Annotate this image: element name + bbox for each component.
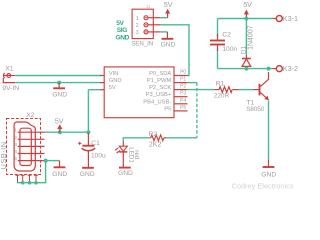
svg-text:2: 2 xyxy=(14,135,17,141)
svg-text:S8050: S8050 xyxy=(246,106,265,113)
svg-text:R2: R2 xyxy=(149,131,158,138)
wire P2 to R1 xyxy=(188,89,215,91)
svg-text:GND: GND xyxy=(80,171,95,178)
resistor R2 xyxy=(149,135,166,141)
J1 pad 3 xyxy=(144,30,148,34)
wire T1 emitter to ground xyxy=(268,101,270,160)
USB tongue xyxy=(20,128,31,165)
wire R2 to LED xyxy=(123,138,149,142)
wire GND net X1 to module xyxy=(15,82,100,84)
svg-text:P5: P5 xyxy=(164,106,171,112)
J1 pin1 lead xyxy=(148,17,161,19)
svg-text:2K2: 2K2 xyxy=(149,142,162,149)
module left pin names xyxy=(109,71,122,91)
svg-text:P3: P3 xyxy=(180,91,186,97)
pin labels P0-P5 xyxy=(180,69,186,111)
svg-text:5V: 5V xyxy=(109,85,116,91)
svg-text:220R: 220R xyxy=(214,93,230,100)
pad K3-2 xyxy=(273,66,283,72)
svg-text:4: 4 xyxy=(14,149,17,155)
wire R1 to T1 base xyxy=(239,89,254,91)
USB shield pins xyxy=(16,175,39,183)
svg-text:P2: P2 xyxy=(180,84,186,90)
USB pin rows xyxy=(18,132,46,160)
node C1 junction xyxy=(86,130,90,134)
svg-text:5V: 5V xyxy=(164,0,173,9)
ground under X1 wire xyxy=(53,83,65,89)
svg-text:P1: P1 xyxy=(180,77,186,83)
pin VIN stub xyxy=(100,75,104,77)
svg-text:1: 1 xyxy=(14,128,17,134)
pin P0 stub xyxy=(174,75,188,77)
svg-text:5V: 5V xyxy=(116,20,124,27)
node 5V arrow junction xyxy=(58,130,62,134)
wire J1 pin1 to 5V arrow xyxy=(161,17,168,19)
node junction X1 GND xyxy=(57,81,61,85)
svg-text:X1: X1 xyxy=(5,66,14,73)
capacitor C1 xyxy=(78,133,95,167)
svg-text:C1: C1 xyxy=(91,140,100,147)
svg-text:P0: P0 xyxy=(180,69,186,75)
svg-text:K3-2: K3-2 xyxy=(283,64,298,73)
USB shell X2 xyxy=(14,122,35,171)
J1 pin3 lead xyxy=(148,31,161,33)
USB pin numbers xyxy=(14,128,17,162)
svg-text:1N4007: 1N4007 xyxy=(248,25,255,50)
resistor R1 xyxy=(215,87,239,93)
svg-text:GND: GND xyxy=(109,78,122,84)
svg-text:PB4_USB-: PB4_USB- xyxy=(143,99,171,105)
svg-text:P2_SCK: P2_SCK xyxy=(149,85,171,91)
J1 pin2 lead xyxy=(148,24,161,26)
power 5V arrow top right xyxy=(244,10,248,19)
svg-text:100u: 100u xyxy=(91,152,106,159)
node bottom rail collector junction xyxy=(267,67,271,71)
svg-text:J1: J1 xyxy=(146,4,151,9)
svg-text:P4: P4 xyxy=(180,98,186,104)
wire R2 right lead net xyxy=(166,137,197,139)
svg-text:GND: GND xyxy=(118,170,133,177)
svg-text:100n: 100n xyxy=(222,46,237,53)
pad K3-1 xyxy=(273,16,283,22)
capacitor C2 xyxy=(210,34,225,51)
wire bottom rail xyxy=(218,68,273,70)
ground under J1 xyxy=(162,32,174,39)
pin P1 stub xyxy=(174,82,188,84)
svg-text:P1_PWM: P1_PWM xyxy=(147,78,172,84)
connector X2 dashed outline xyxy=(7,119,41,175)
svg-text:5: 5 xyxy=(14,156,17,162)
ground right of USB xyxy=(54,161,66,168)
svg-text:GND: GND xyxy=(52,91,67,98)
svg-text:GND: GND xyxy=(52,171,67,178)
J1 pad 1 xyxy=(144,16,148,20)
connector X1 xyxy=(3,73,15,83)
wire 5V junction to USB pin1 xyxy=(45,131,88,133)
svg-text:3: 3 xyxy=(136,30,139,36)
svg-text:Codrey Electronics: Codrey Electronics xyxy=(232,181,294,190)
svg-text:3: 3 xyxy=(14,142,17,148)
svg-text:SIG: SIG xyxy=(117,27,127,34)
svg-text:P0_SDA: P0_SDA xyxy=(149,71,171,77)
wire 5V pin down to C1 junction xyxy=(88,90,100,133)
connector J1 box xyxy=(132,9,153,38)
wire J1 pin3 to ground xyxy=(161,31,168,33)
svg-text:C2: C2 xyxy=(222,32,231,39)
module right pin names xyxy=(143,71,172,113)
transistor T1 xyxy=(254,72,269,100)
node shield junctions xyxy=(21,181,25,185)
J1 pin numbers xyxy=(136,16,139,36)
node bottom rail D1 junction xyxy=(244,67,248,71)
svg-text:P5: P5 xyxy=(180,105,186,111)
node pin5 junction xyxy=(44,159,48,163)
ground under C1 xyxy=(82,167,94,169)
pin P5 stub xyxy=(174,110,188,112)
svg-text:D1: D1 xyxy=(241,46,248,54)
wire P1 to dashed net xyxy=(188,82,197,84)
wire J1 pin2 to P0 xyxy=(161,25,189,76)
ground under LED1 xyxy=(119,167,131,169)
svg-text:SEN_IN: SEN_IN xyxy=(131,40,153,47)
svg-text:2: 2 xyxy=(136,23,139,29)
wire VIN net X1 to module xyxy=(15,75,100,77)
svg-text:GND: GND xyxy=(161,41,176,48)
svg-text:USB-IN: USB-IN xyxy=(0,141,8,169)
svg-text:red: red xyxy=(133,150,140,160)
pin P4 stub xyxy=(174,103,188,105)
pin GND stub xyxy=(100,82,104,84)
pin 5V stub xyxy=(100,89,104,91)
svg-text:1: 1 xyxy=(136,16,139,22)
pin P2 stub xyxy=(174,89,188,91)
wire D1 branch xyxy=(245,19,247,56)
wire top 5V rail xyxy=(218,18,273,20)
svg-text:R1: R1 xyxy=(216,81,225,88)
pin P3 stub xyxy=(174,96,188,98)
diode D1 xyxy=(242,59,251,69)
svg-text:9V-IN: 9V-IN xyxy=(2,85,19,92)
svg-text:GND: GND xyxy=(261,171,276,178)
svg-text:5V: 5V xyxy=(55,117,64,126)
svg-text:GND: GND xyxy=(116,34,130,41)
J1 green labels 5V SIG GND xyxy=(116,20,130,42)
dashed wire P1 down xyxy=(196,83,198,138)
wire C2 branch left xyxy=(217,19,219,69)
wire shield bus to pin5 junction xyxy=(17,161,46,183)
power 5V arrow left xyxy=(58,125,62,133)
J1 pad 2 xyxy=(144,23,148,27)
svg-text:X2: X2 xyxy=(26,112,35,119)
svg-text:K3-1: K3-1 xyxy=(283,14,298,23)
svg-text:P3_USB+: P3_USB+ xyxy=(146,92,172,98)
module U1 Digispark box xyxy=(104,67,174,118)
svg-text:VIN: VIN xyxy=(109,71,119,77)
power 5V arrow at J1 xyxy=(165,9,169,18)
wire USB pin5 to ground xyxy=(46,160,60,162)
ground under T1 xyxy=(263,159,275,167)
svg-text:5V: 5V xyxy=(243,0,252,9)
node top rail junction xyxy=(244,17,248,21)
LED LED1 xyxy=(115,141,128,167)
